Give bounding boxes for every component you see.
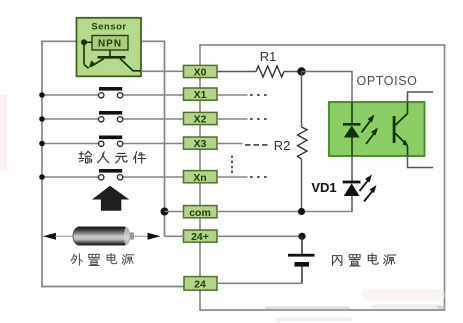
- svg-text:com: com: [189, 207, 211, 219]
- wire: X2 row right segment: [123, 118, 184, 120]
- wire: left rail: [41, 41, 43, 288]
- terminal 24+: [184, 230, 218, 243]
- label 内置电源: [333, 254, 396, 267]
- wire: X2 stub right of terminal: [217, 118, 248, 120]
- node: sensor base junction: [81, 39, 87, 45]
- terminal X1: [184, 88, 218, 101]
- wire: emitter lead out of box: [407, 146, 409, 156]
- wire: base dot to NPN box (dark): [84, 41, 92, 43]
- svg-text:X2: X2: [194, 114, 207, 126]
- wire: Xn row right segment: [123, 176, 184, 178]
- svg-text:Sensor: Sensor: [91, 22, 126, 33]
- svg-text:X1: X1: [194, 89, 207, 101]
- transistor Q1 inside sensor: [84, 42, 142, 71]
- wire: box to VD1: [351, 156, 353, 182]
- node: R1/R2 junction: [297, 67, 305, 75]
- wire: X1 row left segment: [42, 94, 99, 96]
- label 输入元件: [79, 151, 146, 163]
- svg-text:R2: R2: [274, 138, 291, 153]
- wire: sensor output to drop line: [142, 40, 166, 42]
- wire: sensor collector to X0 terminal: [141, 70, 184, 72]
- NPN box U-npn: [92, 36, 128, 51]
- node: Xn tap junction: [39, 174, 45, 180]
- node: 24+ internal junction: [298, 233, 305, 240]
- resistor R1: [256, 66, 284, 77]
- wire: 24+ row to battery: [55, 235, 74, 237]
- sensor box: [77, 18, 142, 77]
- wire: LED anode lead inside box: [351, 102, 353, 124]
- svg-text:R1: R1: [260, 49, 277, 64]
- node: X2 tap junction: [39, 116, 45, 122]
- wire: collector lead out of box: [407, 103, 409, 114]
- wire: X2 row left segment: [42, 118, 99, 120]
- svg-text:24: 24: [194, 279, 206, 291]
- diode VD1: [343, 181, 361, 196]
- switch S2: [99, 111, 123, 122]
- LED light arrows: [362, 115, 379, 145]
- frame: right edge: [444, 44, 446, 311]
- wire: X0 to R1: [217, 71, 256, 73]
- terminal com: [184, 206, 218, 219]
- node: X3 tap junction: [39, 141, 45, 147]
- LED D-opto inside box: [343, 123, 361, 156]
- frame: bottom edge: [199, 309, 445, 311]
- wire: 24+ terminal to internal battery junction: [217, 235, 302, 237]
- VD1 light arrows: [360, 175, 377, 202]
- wire: X3 stub right of terminal: [217, 143, 243, 145]
- dashes after X3: [245, 144, 268, 146]
- terminal 24: [184, 277, 217, 291]
- label 外置电源: [71, 253, 134, 265]
- ellipsis after X2: [250, 118, 267, 120]
- svg-text:X0: X0: [194, 67, 207, 79]
- svg-text:OPTOISO: OPTOISO: [357, 74, 418, 88]
- wire: R1 to junction: [284, 71, 302, 73]
- terminal X2: [184, 112, 218, 125]
- wire: drop line to 24+ terminal: [165, 235, 185, 237]
- wire: com stub to com terminal: [165, 211, 185, 213]
- faint left-edge watermark smudge: [0, 95, 7, 170]
- battery BT-int symbol: [288, 236, 315, 283]
- wire: junction to optocoupler drop: [302, 72, 353, 103]
- svg-text:NPN: NPN: [98, 39, 122, 50]
- wire: Xn row left segment: [42, 176, 99, 178]
- terminal X3: [184, 137, 218, 150]
- battery BT-ext cylinder: [73, 227, 134, 245]
- watermark smudge bottom right: [265, 289, 445, 321]
- wire: X1 stub right of terminal: [217, 94, 248, 96]
- wire: VD1 to com row: [351, 196, 353, 212]
- op-isolator U1 box: [329, 102, 425, 156]
- svg-text:Xn: Xn: [193, 172, 206, 184]
- bus: PLC input vertical bus: [199, 45, 201, 310]
- wire: Xn stub right of terminal: [217, 176, 248, 178]
- svg-text:X3: X3: [194, 138, 207, 150]
- wire: com row right of terminal: [217, 211, 353, 213]
- phototransistor Q2 inside box: [393, 114, 409, 147]
- frame: top edge: [199, 44, 445, 46]
- resistor R2 with leads: [298, 72, 308, 212]
- wire: sensor drop line down to 24+ row: [164, 41, 166, 236]
- svg-text:VD1: VD1: [311, 180, 336, 195]
- wire: bottom-left run to 24 terminal: [41, 286, 184, 288]
- ellipsis after X1: [250, 94, 267, 96]
- wire: sensor base row from left rail: [41, 40, 77, 42]
- arrowhead: external supply right: [148, 233, 161, 240]
- wire: internal battery to 24 terminal: [217, 282, 303, 284]
- node: com/R2 junction: [298, 208, 305, 215]
- node: X1 tap junction: [39, 92, 45, 98]
- switch S3: [99, 136, 123, 147]
- terminal X0: [184, 65, 218, 78]
- arrow: big up arrow: [92, 186, 129, 211]
- switch S1: [99, 87, 123, 98]
- wire: battery to right arrowhead: [134, 235, 159, 237]
- vertical ellipsis between X3 and Xn: [231, 156, 233, 173]
- wire: X3 row left segment: [42, 143, 99, 145]
- wire: X3 row right segment: [123, 143, 184, 145]
- arrowhead: external supply left: [43, 233, 56, 240]
- switch Sn: [99, 169, 123, 180]
- node: com junction on drop line: [161, 208, 169, 216]
- ellipsis after Xn: [250, 176, 267, 178]
- wire: X1 row right segment: [123, 94, 184, 96]
- svg-text:24+: 24+: [191, 231, 209, 243]
- terminal Xn: [184, 171, 218, 184]
